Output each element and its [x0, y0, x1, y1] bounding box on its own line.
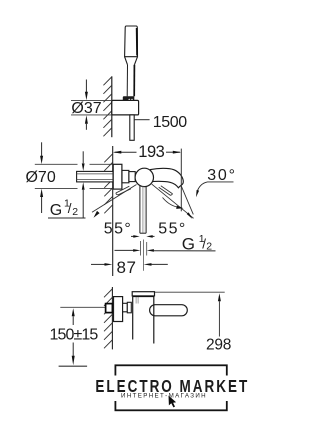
spout (side view, rounded bar): [150, 305, 188, 316]
wall hatching (middle): [104, 154, 112, 213]
shower handle: [126, 65, 128, 97]
dimension 150±15 arrows: [72, 308, 75, 316]
55° swing arrowhead (left): [94, 211, 100, 218]
svg-text:150±15: 150±15: [49, 327, 98, 344]
label G 1/2 (left): [50, 198, 79, 219]
supply union in wall (side): [106, 304, 113, 313]
wall face line (top section): [111, 76, 113, 137]
phantom lever tilted (right): [159, 186, 173, 196]
55° swing arrowhead (right): [187, 212, 193, 219]
svg-text:ИНТЕРНЕТ-МАГАЗИН: ИНТЕРНЕТ-МАГАЗИН: [121, 392, 207, 399]
30° leader: [197, 182, 234, 193]
connector nut 2: [129, 172, 135, 182]
svg-text:/: /: [68, 201, 72, 216]
svg-text:Ø70: Ø70: [25, 169, 55, 186]
dimension 298 arrow: [218, 293, 221, 301]
svg-text:298: 298: [206, 336, 231, 353]
svg-text:87: 87: [117, 258, 137, 277]
lever cap (side view): [132, 292, 154, 296]
connector nut 1: [122, 170, 129, 182]
wall hatching (top section): [103, 77, 111, 136]
body (side view): [132, 297, 134, 340]
wall face line (bottom): [111, 287, 113, 349]
svg-text:G: G: [50, 202, 62, 219]
svg-text:30°: 30°: [207, 167, 237, 184]
label G 1/2 (bottom right): [182, 233, 213, 254]
wall hatching (bottom): [104, 289, 112, 348]
tub rim reference line: [59, 365, 88, 367]
dimension 87: [91, 263, 105, 265]
svg-text:G: G: [182, 235, 195, 254]
cursor icon: [169, 396, 177, 408]
leader line to 1500: [134, 119, 149, 121]
mounting flange (side): [114, 297, 123, 322]
swivel reference vertical line / right extension: [180, 149, 182, 212]
svg-text:2: 2: [206, 241, 212, 253]
svg-text:193: 193: [138, 143, 164, 161]
svg-text:55°: 55°: [104, 221, 132, 238]
55° swing line (right): [152, 184, 194, 218]
shower handle dark end cone: [123, 96, 135, 101]
wall face / extension line (middle): [112, 146, 114, 276]
phantom lever tilted (left): [116, 186, 131, 195]
G 1/2 (left) arrows: [82, 151, 84, 163]
centreline below lever: [142, 240, 144, 271]
svg-text:2: 2: [72, 206, 78, 218]
shower outlet extension lines: [140, 241, 142, 256]
shower hose: [130, 115, 134, 140]
supply pipe / union: [77, 171, 113, 182]
30° tilted spout line: [181, 186, 193, 214]
white gaps over frame sides for text: [96, 376, 248, 402]
dimension Ø37 extension lines: [71, 100, 112, 102]
wall holder bracket: [112, 100, 139, 115]
dimension 193: [115, 151, 137, 153]
shower head taper: [125, 57, 128, 65]
shower head dark right edge: [136, 28, 138, 56]
55° swing line (left): [92, 185, 137, 213]
dimension Ø70 arrows: [41, 142, 43, 156]
G 1/2 (left) label box line: [48, 217, 86, 219]
spout (front view): [151, 168, 184, 187]
swing arc arrow (right): [163, 198, 181, 208]
150±15 extension line (pipe centre): [60, 306, 105, 308]
dimension Ø70 extension lines: [35, 163, 78, 165]
mounting flange (front): [113, 164, 122, 189]
dimension Ø37 arrows: [85, 80, 87, 93]
svg-text:1500: 1500: [153, 114, 187, 131]
svg-text:Ø37: Ø37: [71, 100, 101, 117]
valve body circle: [135, 168, 153, 186]
dimension 298 extension line: [155, 291, 225, 293]
logo frame: [115, 365, 226, 410]
connector nuts (side): [123, 303, 128, 312]
G 1/2 (bottom) arrows: [115, 249, 134, 251]
hand shower head: [125, 26, 138, 57]
lever handle (front, pointing down): [139, 186, 141, 234]
lever tip arrows (pair at y=236.4): [131, 235, 134, 237]
